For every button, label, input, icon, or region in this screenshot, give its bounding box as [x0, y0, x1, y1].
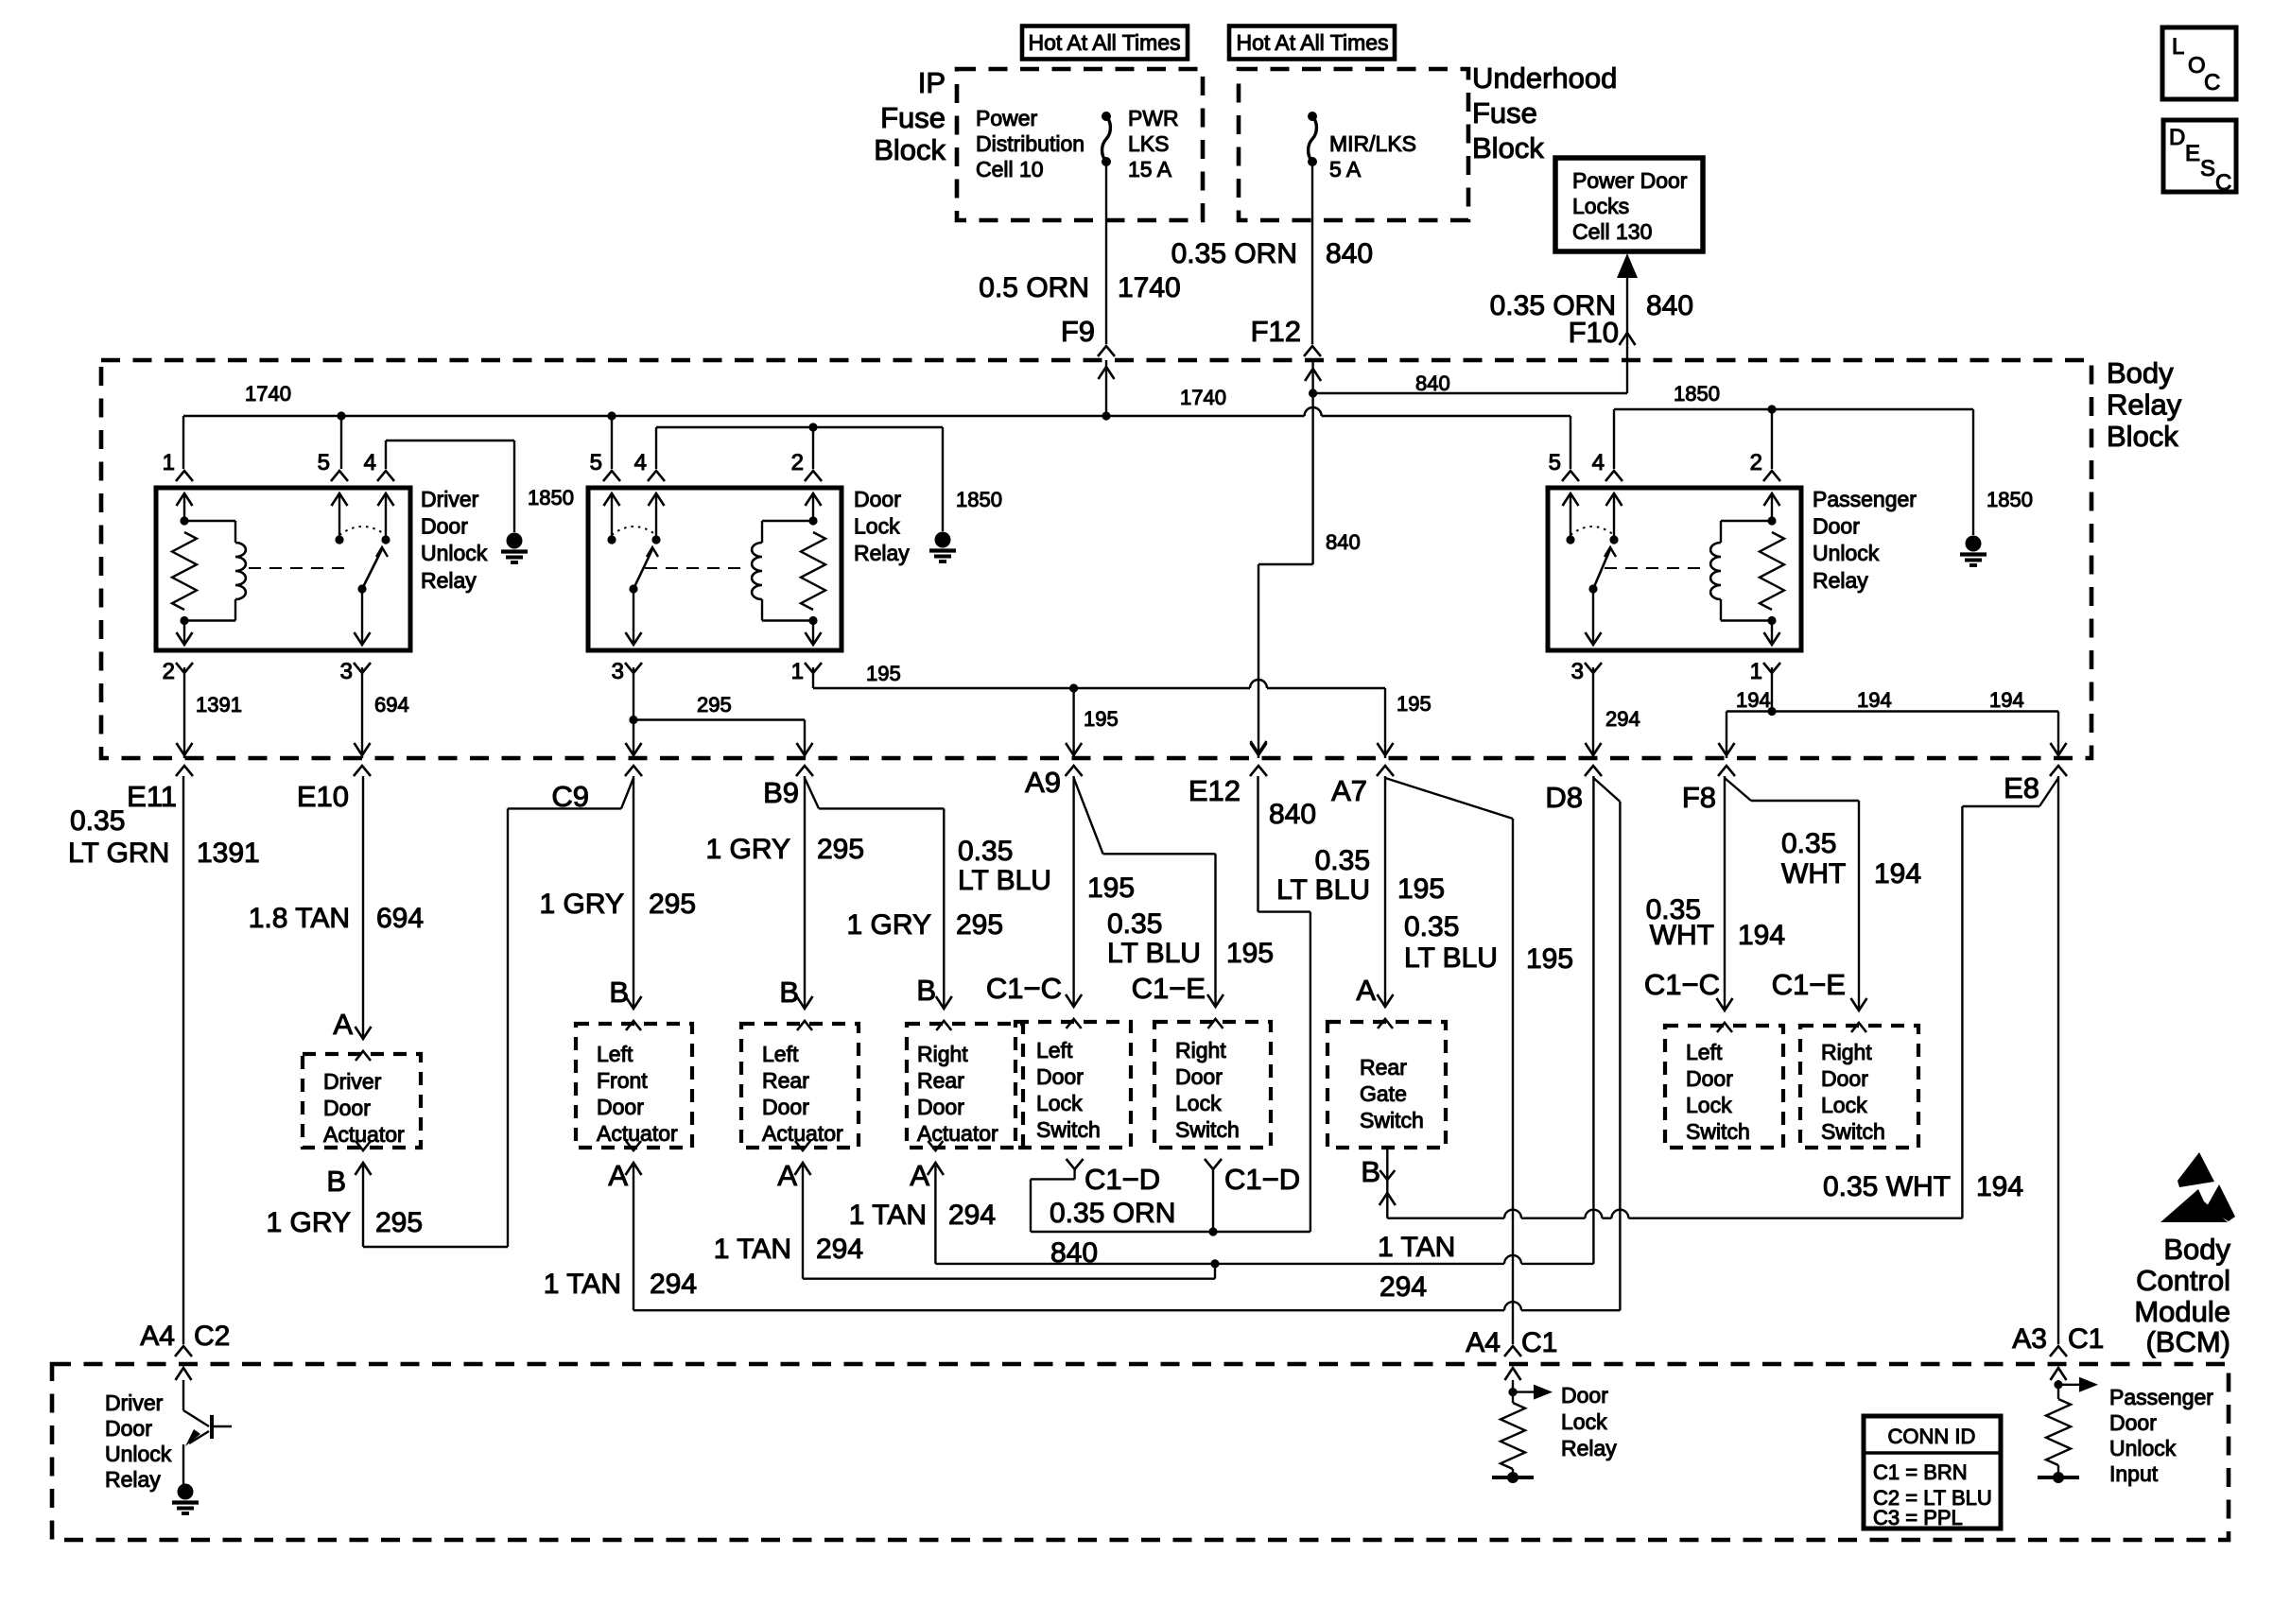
ground door lock relay — [929, 532, 956, 562]
svg-text:0.35: 0.35 — [958, 836, 1013, 867]
svg-text:840: 840 — [1326, 238, 1373, 269]
svg-text:S: S — [2200, 156, 2215, 181]
svg-text:195: 195 — [1087, 872, 1135, 904]
svg-text:PWR: PWR — [1128, 106, 1179, 130]
svg-text:1 TAN: 1 TAN — [849, 1200, 927, 1231]
svg-text:15 A: 15 A — [1128, 157, 1172, 181]
label 0.35 LT GRN 1391 — [68, 805, 260, 869]
svg-text:4: 4 — [364, 450, 376, 475]
right door lock switch box — [1154, 1022, 1271, 1148]
fuse MIR/LKS 5A — [1308, 112, 1416, 181]
connector A9 — [1025, 766, 1061, 799]
svg-text:3: 3 — [1571, 659, 1584, 684]
BCM A4/C2 boundary connector — [175, 1346, 192, 1380]
power distribution cell 10 text — [976, 106, 1084, 181]
label 0.35 ORN 840 — [1171, 238, 1373, 269]
svg-text:3: 3 — [612, 659, 624, 684]
right group right door lock switch pin C1-E entry arrows — [1851, 998, 1867, 1032]
svg-text:A: A — [910, 1159, 929, 1192]
svg-text:194: 194 — [1989, 688, 2024, 712]
label 0.5 ORN 1740 — [979, 272, 1180, 303]
label 194 internal a — [1736, 688, 1771, 712]
wire E10 to driver door actuator — [362, 776, 364, 1037]
svg-text:C1−D: C1−D — [1084, 1163, 1160, 1196]
left front door actuator pin A exit arrows — [626, 1141, 642, 1175]
svg-text:F12: F12 — [1251, 315, 1301, 348]
svg-text:IP: IP — [918, 66, 946, 99]
C1-D connector left — [1067, 1159, 1084, 1169]
label pin A LR actuator — [777, 1159, 797, 1192]
svg-text:(BCM): (BCM) — [2145, 1325, 2230, 1358]
svg-text:0.35: 0.35 — [1315, 845, 1370, 876]
wire F8 branch to right door lock switch C1-E — [1725, 778, 1859, 1011]
svg-text:1: 1 — [791, 659, 804, 684]
svg-text:Door: Door — [105, 1416, 152, 1441]
rear gate switch pin A entry arrows — [1378, 994, 1394, 1028]
door lock relay K2 label — [854, 487, 910, 565]
boundary exit arrow B9 — [796, 743, 813, 776]
relay pin 2 bottom connector — [163, 659, 193, 684]
svg-text:1 GRY: 1 GRY — [706, 834, 791, 865]
label 1850 passenger — [1987, 488, 2033, 511]
svg-text:Relay: Relay — [1561, 1436, 1617, 1460]
svg-text:5: 5 — [1549, 450, 1561, 475]
connector D8 — [1545, 781, 1583, 814]
svg-text:Cell 130: Cell 130 — [1572, 219, 1652, 244]
svg-text:C1: C1 — [1521, 1327, 1557, 1358]
svg-text:Door: Door — [1686, 1066, 1733, 1091]
BCM door lock relay label — [1561, 1383, 1617, 1460]
wire A7 branch to BCM door lock relay — [1385, 778, 1513, 1344]
ESD sensitive device symbol — [2160, 1152, 2235, 1222]
relay pin 5 top connector — [1549, 450, 1579, 481]
svg-text:295: 295 — [817, 834, 864, 865]
svg-text:195: 195 — [1226, 938, 1274, 969]
svg-text:0.35 ORN: 0.35 ORN — [1171, 238, 1297, 269]
left door lock switch box — [1015, 1022, 1131, 1148]
svg-text:195: 195 — [1397, 692, 1431, 716]
relay pin 1 top connector — [163, 450, 193, 481]
svg-text:C: C — [2215, 170, 2231, 196]
svg-text:Distribution: Distribution — [976, 131, 1084, 156]
svg-text:Right: Right — [917, 1042, 968, 1066]
wire 840 drop from F12 — [1251, 393, 1313, 758]
svg-text:D8: D8 — [1545, 781, 1583, 814]
label pin B RR actuator — [916, 974, 936, 1007]
label A4 C1 — [1466, 1327, 1557, 1358]
svg-text:Unlock: Unlock — [421, 541, 488, 565]
wire driver actuator B to C9 — [356, 778, 634, 1247]
label 840 top — [1415, 371, 1450, 395]
label pin B driver actuator — [326, 1165, 346, 1198]
svg-text:Right: Right — [1175, 1038, 1226, 1063]
label 1 TAN 294 (LF A) — [544, 1269, 697, 1300]
svg-text:C1−D: C1−D — [1224, 1163, 1300, 1196]
svg-text:840: 840 — [1415, 371, 1450, 395]
svg-text:0.35: 0.35 — [1404, 911, 1459, 942]
boundary exit arrow F8 — [1718, 743, 1735, 776]
wire driver pin3 to E10 — [361, 667, 363, 758]
svg-text:0.35: 0.35 — [1107, 908, 1162, 940]
left door lock switch pin C1-C entry arrows — [1066, 994, 1082, 1028]
svg-text:0.35: 0.35 — [70, 805, 125, 837]
label 294 internal — [1605, 707, 1640, 731]
connector E11 — [127, 780, 177, 813]
relay pin 5 top connector — [590, 450, 620, 481]
rear gate switch B exit arrows — [1379, 1170, 1396, 1205]
wire C9 to left front door actuator B — [633, 776, 634, 1009]
svg-text:Door: Door — [854, 487, 901, 511]
svg-text:295: 295 — [697, 693, 732, 717]
svg-text:F9: F9 — [1061, 315, 1095, 348]
label 1 GRY 295 (RR B) — [847, 909, 1004, 941]
C1-D connector right — [1205, 1159, 1222, 1169]
CONN ID table — [1864, 1416, 2001, 1529]
wire 840 to F10 — [1313, 360, 1627, 393]
passenger door unlock relay K3 label — [1813, 487, 1917, 593]
svg-text:1850: 1850 — [528, 486, 574, 510]
svg-text:Cell 10: Cell 10 — [976, 157, 1044, 181]
connector E12 — [1189, 774, 1241, 807]
svg-text:Left: Left — [762, 1042, 799, 1066]
svg-text:LT BLU: LT BLU — [958, 865, 1051, 896]
right group left door lock switch box — [1665, 1026, 1783, 1148]
svg-text:1: 1 — [163, 450, 175, 475]
svg-text:LT BLU: LT BLU — [1276, 874, 1370, 906]
svg-text:0.35: 0.35 — [1781, 828, 1836, 859]
relay pin 4 top connector — [1592, 450, 1622, 481]
svg-text:195: 195 — [1526, 943, 1573, 975]
right rear door actuator pin A exit arrows — [928, 1141, 944, 1175]
boundary exit arrow D8 — [1585, 743, 1602, 776]
right rear door actuator box — [907, 1024, 1023, 1148]
label 0.35 LT BLU 195 (A7a) — [1276, 845, 1445, 906]
svg-text:1391: 1391 — [197, 838, 260, 869]
left rear door actuator pin A exit arrows — [795, 1141, 811, 1175]
connector A7 — [1331, 774, 1367, 807]
wire E11 to BCM A4/C2 — [182, 776, 184, 1344]
label 1850 driver — [528, 486, 574, 510]
svg-text:Locks: Locks — [1572, 194, 1629, 218]
Body Relay Block label — [2107, 356, 2182, 453]
svg-text:1 TAN: 1 TAN — [544, 1269, 621, 1300]
svg-text:C1 = BRN: C1 = BRN — [1873, 1460, 1968, 1484]
wire 194 net passenger pin1 — [1726, 667, 2058, 758]
label 1391 internal — [196, 693, 242, 717]
svg-text:Door: Door — [2109, 1410, 2157, 1435]
label 1850 door lock — [956, 488, 1002, 511]
svg-text:F8: F8 — [1682, 781, 1716, 814]
svg-text:Hot At All Times: Hot At All Times — [1028, 30, 1180, 55]
Body Relay Block dashed box — [101, 360, 2091, 758]
svg-text:Door: Door — [421, 514, 468, 539]
svg-text:Block: Block — [1472, 131, 1544, 164]
label 1 TAN 294 (LR A) — [714, 1234, 863, 1265]
right door lock switch pin C1-E entry arrows — [1207, 994, 1223, 1028]
wire D8 branch 1 — [1592, 776, 1594, 1264]
svg-text:C1−E: C1−E — [1132, 972, 1206, 1005]
passenger relay pin 5 feed — [1570, 416, 1571, 469]
relay pin 1 bottom connector — [791, 659, 822, 684]
svg-text:Power: Power — [976, 106, 1038, 130]
svg-text:Lock: Lock — [1821, 1093, 1867, 1117]
label 0.35 WHT 194 (E8b) — [1823, 1171, 2023, 1202]
IP Fuse Block label — [874, 66, 946, 166]
svg-text:1740: 1740 — [245, 382, 291, 406]
label C1-D right — [1224, 1163, 1300, 1196]
label C1-E right — [1772, 968, 1846, 1001]
svg-text:1 TAN: 1 TAN — [1378, 1232, 1455, 1263]
svg-text:MIR/LKS: MIR/LKS — [1329, 131, 1416, 156]
svg-text:Rear: Rear — [917, 1068, 964, 1093]
label 194 internal c — [1989, 688, 2024, 712]
svg-text:840: 840 — [1646, 290, 1693, 321]
svg-text:WHT: WHT — [1781, 858, 1846, 890]
wire 195 net door lock pin1 — [813, 667, 1385, 758]
svg-text:1850: 1850 — [1987, 488, 2033, 511]
DESC reference box — [2163, 120, 2236, 196]
svg-text:Switch: Switch — [1821, 1119, 1885, 1144]
svg-text:Switch: Switch — [1686, 1119, 1750, 1144]
LOC reference box — [2162, 27, 2236, 99]
relay pin 3 bottom connector — [1571, 659, 1602, 684]
label 1 TAN 294 (RR A) — [849, 1200, 996, 1231]
svg-text:B: B — [779, 976, 799, 1009]
svg-text:Rear: Rear — [1360, 1055, 1407, 1080]
svg-text:Control: Control — [2136, 1264, 2230, 1297]
label C1-C right — [1644, 968, 1720, 1001]
wire 294 link from left rear actuator A — [803, 1166, 1215, 1279]
label pin A rear gate — [1356, 974, 1376, 1007]
svg-text:C1−E: C1−E — [1772, 968, 1846, 1001]
svg-text:2: 2 — [791, 450, 804, 475]
wire B9 branch to right rear actuator B — [805, 778, 944, 1009]
right group right door lock switch box — [1800, 1026, 1918, 1148]
boundary exit arrow E10 — [354, 743, 371, 776]
svg-text:1740: 1740 — [1180, 386, 1226, 409]
BCM driver door unlock relay label — [105, 1391, 172, 1492]
svg-text:2: 2 — [163, 659, 175, 684]
svg-text:Left: Left — [1686, 1040, 1723, 1064]
relay pin 3 bottom connector — [612, 659, 642, 684]
svg-text:1 TAN: 1 TAN — [714, 1234, 791, 1265]
svg-text:LT BLU: LT BLU — [1404, 942, 1498, 974]
svg-text:LT GRN: LT GRN — [68, 838, 169, 869]
svg-text:5: 5 — [590, 450, 602, 475]
svg-text:1850: 1850 — [956, 488, 1002, 511]
label 840 (E12) — [1269, 799, 1316, 830]
label A3 C1 — [2012, 1323, 2104, 1355]
svg-text:Door: Door — [1821, 1066, 1868, 1091]
driver relay pin feeds — [183, 416, 341, 469]
label 0.35 ORN 840 (C1-D) — [1050, 1198, 1175, 1269]
svg-text:694: 694 — [374, 693, 409, 717]
right group left door lock switch pin C1-C entry arrows — [1717, 998, 1733, 1032]
label pin A driver actuator — [333, 1008, 353, 1041]
label C1-E left — [1132, 972, 1206, 1005]
svg-text:1: 1 — [1750, 659, 1762, 684]
label 1.8 TAN 694 — [249, 903, 424, 934]
svg-text:0.35 WHT: 0.35 WHT — [1823, 1171, 1951, 1202]
svg-text:Door: Door — [1036, 1064, 1084, 1089]
svg-text:Underhood: Underhood — [1472, 61, 1617, 95]
svg-text:A: A — [1356, 974, 1376, 1007]
label F12 — [1251, 315, 1301, 348]
svg-text:A7: A7 — [1331, 774, 1367, 807]
svg-text:Lock: Lock — [1175, 1091, 1222, 1115]
svg-text:294: 294 — [1605, 707, 1640, 731]
svg-text:Door: Door — [762, 1095, 809, 1119]
svg-text:195: 195 — [866, 662, 901, 685]
svg-text:4: 4 — [634, 450, 647, 475]
svg-text:195: 195 — [1084, 707, 1119, 731]
svg-text:Door: Door — [597, 1095, 644, 1119]
svg-text:1391: 1391 — [196, 693, 242, 717]
svg-text:Door: Door — [917, 1095, 964, 1119]
BCM driver door unlock relay transistor — [183, 1380, 232, 1484]
left front door actuator box — [576, 1024, 692, 1148]
relay pin 4 top connector — [364, 450, 394, 481]
connector E8 — [2004, 771, 2039, 804]
label C1-C left — [986, 972, 1062, 1005]
label 840 on drop — [1326, 530, 1361, 554]
svg-text:1 GRY: 1 GRY — [540, 889, 625, 920]
label 0.35 LT BLU 195 (A9) — [958, 836, 1135, 904]
svg-text:Passenger: Passenger — [1813, 487, 1917, 511]
wire passenger pin3 to D8 — [1592, 667, 1594, 758]
svg-text:A: A — [777, 1159, 797, 1192]
boundary exit arrow A7 — [1377, 743, 1394, 776]
svg-text:Door: Door — [323, 1096, 371, 1120]
svg-text:Left: Left — [597, 1042, 633, 1066]
svg-text:Actuator: Actuator — [323, 1122, 405, 1147]
svg-text:Door: Door — [1813, 514, 1860, 539]
svg-text:Relay: Relay — [421, 568, 477, 593]
driver door actuator pin B exit arrows — [356, 1141, 372, 1175]
svg-text:Input: Input — [2109, 1461, 2159, 1486]
driver door unlock relay K1 label — [421, 487, 488, 593]
svg-text:Lock: Lock — [1686, 1093, 1732, 1117]
connector B9 — [763, 776, 799, 809]
svg-text:Module: Module — [2134, 1295, 2230, 1328]
svg-text:1850: 1850 — [1674, 382, 1720, 406]
svg-text:A: A — [333, 1008, 353, 1041]
label 1 GRY 295 (C9) — [540, 889, 697, 920]
svg-text:Block: Block — [874, 133, 946, 166]
label pin A RR actuator — [910, 1159, 929, 1192]
boundary exit arrow E8 — [2050, 743, 2067, 776]
connector F8 — [1682, 781, 1716, 814]
svg-text:1 GRY: 1 GRY — [847, 909, 932, 941]
svg-text:Actuator: Actuator — [597, 1121, 678, 1146]
svg-text:Driver: Driver — [421, 487, 479, 511]
svg-text:E11: E11 — [127, 780, 177, 813]
driver door actuator box — [303, 1054, 421, 1148]
door lock relay K2 — [588, 488, 842, 650]
rear gate switch box — [1327, 1022, 1446, 1148]
svg-text:E8: E8 — [2004, 771, 2039, 804]
svg-text:694: 694 — [376, 903, 424, 934]
label 1850 passenger top — [1674, 382, 1720, 406]
svg-text:294: 294 — [948, 1200, 996, 1231]
svg-text:CONN ID: CONN ID — [1888, 1425, 1976, 1448]
BCM A3/C1 boundary connector — [2050, 1346, 2067, 1380]
wire E8 branch to rear gate switch B — [1387, 778, 2058, 1218]
wire 1740 bus — [183, 407, 1570, 421]
svg-text:C3 = PPL: C3 = PPL — [1873, 1506, 1963, 1529]
svg-text:C1−C: C1−C — [1644, 968, 1720, 1001]
label F9 — [1061, 315, 1095, 348]
label pin B LR actuator — [779, 976, 799, 1009]
svg-text:C2: C2 — [194, 1321, 230, 1352]
svg-text:194: 194 — [1738, 920, 1785, 951]
svg-text:Fuse: Fuse — [1472, 96, 1537, 130]
svg-text:LKS: LKS — [1128, 131, 1169, 156]
svg-text:Unlock: Unlock — [2109, 1436, 2177, 1460]
connector C9 — [551, 780, 589, 813]
wire F12 fuse to block — [1304, 162, 1321, 356]
label 1 GRY 295 (B9) — [706, 834, 865, 865]
Hot At All Times box 1 — [1022, 26, 1188, 60]
svg-text:Lock: Lock — [854, 514, 900, 539]
label 195 internal c — [1397, 692, 1431, 716]
left rear door actuator box — [741, 1024, 859, 1148]
Body Control Module label — [2134, 1233, 2230, 1358]
boundary exit arrow A9 — [1066, 743, 1083, 776]
svg-text:C: C — [2204, 70, 2220, 95]
svg-text:A: A — [608, 1159, 628, 1192]
svg-text:295: 295 — [375, 1207, 423, 1238]
svg-text:B9: B9 — [763, 776, 799, 809]
svg-text:194: 194 — [1976, 1171, 2023, 1202]
svg-text:840: 840 — [1269, 799, 1316, 830]
right rear door actuator pin B entry arrows — [936, 996, 952, 1030]
label 1 GRY 295 (driver B) — [267, 1207, 424, 1238]
svg-text:Door: Door — [1561, 1383, 1608, 1408]
svg-text:5 A: 5 A — [1329, 157, 1362, 181]
svg-text:B: B — [1361, 1155, 1380, 1188]
IP Fuse Block dashed box — [957, 69, 1203, 220]
label A4 C2 — [140, 1321, 230, 1352]
relay pin 2 top connector — [791, 450, 822, 481]
svg-text:Actuator: Actuator — [762, 1121, 843, 1146]
svg-text:Left: Left — [1036, 1038, 1073, 1063]
wire E8 to BCM A3/C1 — [2057, 776, 2059, 1344]
left front door actuator pin B entry arrows — [626, 996, 642, 1030]
label C1-D left — [1084, 1163, 1160, 1196]
svg-text:O: O — [2188, 53, 2206, 78]
svg-text:Front: Front — [597, 1068, 648, 1093]
svg-text:194: 194 — [1736, 688, 1771, 712]
svg-text:Switch: Switch — [1175, 1117, 1240, 1142]
svg-text:A9: A9 — [1025, 766, 1061, 799]
label F10 — [1569, 316, 1619, 349]
wire F8 to left door lock switch C1-C — [1724, 776, 1726, 1011]
svg-text:0.35 ORN: 0.35 ORN — [1050, 1198, 1175, 1229]
label 0.35 LT BLU 195 (A7b) — [1404, 911, 1573, 975]
svg-text:E: E — [2185, 141, 2200, 166]
svg-text:A4: A4 — [140, 1321, 175, 1352]
boundary exit arrow E12 — [1250, 743, 1267, 776]
BCM door lock relay bottom bar — [1492, 1469, 1534, 1483]
wire door lock pin3 to C9 with 295 branch — [629, 667, 805, 758]
ground BCM driver — [172, 1484, 199, 1514]
driver door unlock relay K1 — [156, 488, 410, 650]
svg-text:294: 294 — [816, 1234, 863, 1265]
svg-text:Relay: Relay — [854, 541, 910, 565]
connector E10 — [297, 780, 349, 813]
wire 294 bus from left front actuator A — [633, 1166, 1620, 1310]
